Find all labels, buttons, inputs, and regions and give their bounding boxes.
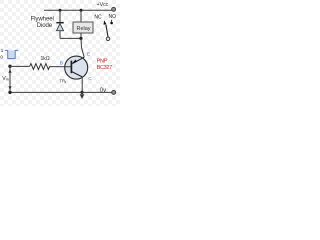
Vin arrow down — [8, 86, 11, 90]
switch lever — [106, 25, 108, 38]
svg-text:E: E — [87, 52, 90, 58]
input pulse waveform icon — [8, 50, 16, 58]
node diode-top junction — [59, 9, 62, 12]
svg-text:in: in — [6, 77, 9, 81]
svg-text:0: 0 — [0, 55, 3, 60]
transistor emitter arrow (PNP) — [72, 60, 77, 64]
node collector-rail junction — [80, 91, 83, 94]
svg-text:Diode: Diode — [37, 22, 53, 29]
transistor emitter diagonal — [72, 57, 84, 63]
switch lever arrowhead — [104, 20, 107, 24]
resistor R1 zigzag — [30, 64, 50, 70]
svg-text:C: C — [88, 76, 92, 82]
svg-text:1: 1 — [65, 80, 67, 84]
wire bottom 0v rail — [10, 91, 112, 93]
svg-text:1kΩ: 1kΩ — [41, 56, 50, 62]
wire collector vertical — [81, 77, 83, 93]
svg-text:B: B — [60, 61, 63, 67]
svg-text:NC: NC — [94, 15, 102, 21]
relay coil box — [73, 22, 93, 33]
wire base lead with resistor leads — [10, 65, 30, 67]
ground arrow — [80, 94, 85, 99]
transistor base bar — [70, 61, 72, 74]
wire emitter vertical — [81, 38, 84, 57]
wire input down — [9, 66, 11, 92]
terminal +Vcc — [112, 7, 116, 11]
wire top +Vcc rail — [44, 9, 112, 11]
svg-text:+Vcc: +Vcc — [97, 2, 109, 8]
svg-text:PNP: PNP — [97, 59, 108, 65]
wire relay branch lower — [80, 33, 82, 38]
svg-text:0v: 0v — [100, 88, 106, 94]
node input-rail junction — [8, 91, 11, 94]
svg-text:1: 1 — [1, 48, 4, 53]
node emitter junction — [79, 37, 82, 40]
NO contact dot — [110, 22, 113, 25]
transistor collector diagonal — [72, 72, 82, 77]
svg-text:NO: NO — [109, 14, 117, 20]
NO contact stem — [111, 20, 113, 22]
transistor Q1 body — [65, 56, 88, 79]
wire diode branch upper — [59, 10, 61, 22]
diode D1 triangle — [57, 24, 64, 31]
terminal 0v — [112, 90, 116, 94]
wire diode branch lower — [59, 31, 61, 39]
svg-text:Relay: Relay — [76, 26, 90, 32]
switch pivot terminal C — [106, 37, 110, 41]
diode D1 cathode bar — [56, 22, 63, 24]
node input junction — [8, 65, 11, 68]
Vin arrow up — [8, 69, 11, 73]
node relay-top junction — [80, 9, 83, 12]
wire diode-to-relay bottom — [60, 37, 81, 39]
svg-text:BC327: BC327 — [97, 65, 113, 71]
wire relay branch upper — [80, 10, 82, 22]
